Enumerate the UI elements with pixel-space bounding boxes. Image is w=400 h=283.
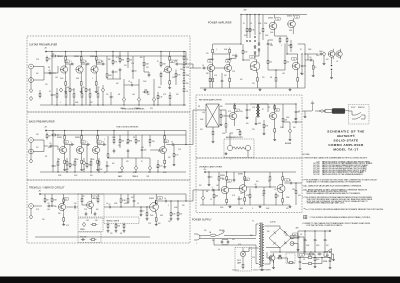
resistor R61 <box>44 197 49 204</box>
wire <box>158 200 164 202</box>
ground <box>246 116 249 119</box>
transistor vib 1 <box>221 184 229 196</box>
capacitor C24 <box>85 212 88 216</box>
wire <box>52 131 54 164</box>
wire output <box>175 144 186 146</box>
resistor R62 <box>63 197 65 204</box>
junction <box>65 51 66 52</box>
resistor R110 <box>218 175 224 182</box>
svg-text:220: 220 <box>262 77 265 79</box>
wire <box>175 78 177 85</box>
shield symbol <box>311 101 314 109</box>
wire ladder link <box>183 69 185 70</box>
junction <box>51 51 52 52</box>
wire <box>294 243 298 245</box>
wire <box>290 40 292 43</box>
voltage callout <box>227 180 232 183</box>
svg-text:100K: 100K <box>288 45 291 47</box>
voltage callout <box>64 198 69 201</box>
wire <box>113 131 115 138</box>
resistor R55 <box>57 160 59 167</box>
resistor R109 <box>244 175 246 182</box>
junction <box>64 130 65 131</box>
ground <box>299 267 302 270</box>
wire <box>275 192 277 194</box>
wire <box>255 103 257 105</box>
resistor R38 <box>64 134 66 141</box>
wire emitter <box>81 156 83 159</box>
svg-text:2N3054: 2N3054 <box>287 16 292 18</box>
wire <box>298 43 305 45</box>
svg-text:10K: 10K <box>116 83 119 85</box>
resistor R113 <box>282 175 284 182</box>
wire <box>254 55 256 60</box>
resistor R111 <box>263 189 265 196</box>
AC plug <box>194 234 202 240</box>
capacitor C22 <box>106 164 110 168</box>
wire V+ rail bass <box>46 130 186 132</box>
wire <box>269 256 271 264</box>
wire <box>287 258 289 263</box>
capacitor C53 <box>329 259 332 263</box>
resistor R83 <box>246 27 251 34</box>
wire <box>44 194 46 197</box>
junction <box>57 171 58 172</box>
capacitor C52 <box>324 238 327 242</box>
svg-text:470K: 470K <box>306 245 309 247</box>
svg-text:470: 470 <box>308 255 311 257</box>
svg-text:FOOT: FOOT <box>351 107 355 109</box>
junction <box>209 67 210 68</box>
wire osc base <box>82 204 87 206</box>
svg-text:2.2K: 2.2K <box>159 97 162 99</box>
junction <box>324 230 325 231</box>
terminal <box>329 251 330 252</box>
junction <box>304 230 305 231</box>
svg-text:.05: .05 <box>163 71 165 73</box>
wire to ground rail <box>56 99 58 105</box>
svg-text:100: 100 <box>286 62 289 64</box>
svg-text:47K: 47K <box>90 102 93 104</box>
resistor R3 <box>65 55 67 62</box>
resistor R97 <box>225 122 227 129</box>
ground <box>314 265 317 268</box>
wire jack chain <box>30 69 32 88</box>
ground <box>289 138 292 141</box>
ground <box>146 217 149 220</box>
junction <box>258 14 259 15</box>
wire <box>230 57 236 59</box>
wire <box>222 244 228 246</box>
diode D3 <box>258 42 260 46</box>
junction <box>98 171 99 172</box>
wire collector <box>81 141 83 145</box>
capacitor C12 <box>110 95 114 99</box>
ground <box>62 223 65 226</box>
wire prim bot <box>255 245 257 264</box>
wire collector feed <box>97 131 99 135</box>
bottom film border band <box>0 277 400 283</box>
svg-text:.05: .05 <box>156 167 158 169</box>
svg-text:8.2K: 8.2K <box>172 214 175 216</box>
svg-text:.1: .1 <box>281 45 282 47</box>
capacitor C46 <box>208 175 213 179</box>
resistor R89 <box>209 77 213 84</box>
svg-text:+9V: +9V <box>44 48 47 50</box>
wire ladder link <box>183 85 185 86</box>
svg-text:1500: 1500 <box>220 207 223 209</box>
svg-text:.02: .02 <box>108 204 110 206</box>
svg-text:12K: 12K <box>262 195 265 197</box>
wire out <box>298 121 302 123</box>
wire bias divider 2 <box>85 64 87 87</box>
svg-text:THE AMPLIFIER. READINGS MAY VA: THE AMPLIFIER. READINGS MAY VARY ±20%. <box>307 202 346 205</box>
resistor R46 <box>113 138 115 145</box>
wire emitter resistor to gnd <box>65 87 67 90</box>
resistor R96 <box>290 43 292 50</box>
wire <box>169 62 171 64</box>
transformer reverb <box>256 104 260 118</box>
wire to ground rail <box>89 99 91 105</box>
resistor R74 <box>51 197 57 204</box>
wire <box>185 194 187 201</box>
capacitor C34 <box>319 51 323 55</box>
junction <box>275 69 276 70</box>
voltage callout <box>158 197 163 200</box>
wire <box>274 122 276 127</box>
svg-text:2.2K: 2.2K <box>178 149 181 151</box>
wire <box>160 78 162 85</box>
svg-text:FOR THE PHYSICAL LOCATION OF P: FOR THE PHYSICAL LOCATION OF PARTS. <box>307 224 343 227</box>
wire <box>256 223 259 225</box>
wire <box>110 99 112 105</box>
dashed pilot lamp box <box>235 248 252 272</box>
svg-text:35: 35 <box>296 17 298 19</box>
svg-text:8.2: 8.2 <box>276 110 278 112</box>
svg-text:50-60 Hz: 50-60 Hz <box>270 222 276 224</box>
wire <box>329 263 331 266</box>
svg-text:1K: 1K <box>243 23 245 25</box>
svg-text:6.8K: 6.8K <box>270 45 273 47</box>
wire to primary <box>230 234 256 236</box>
wire <box>250 103 296 105</box>
wire <box>202 190 204 196</box>
terminal <box>45 51 46 52</box>
ground <box>140 213 143 216</box>
plug cord <box>345 109 349 112</box>
capacitor C18 <box>127 149 130 153</box>
phone plug shaft <box>325 110 332 113</box>
wire <box>66 206 73 208</box>
svg-text:6.8K: 6.8K <box>133 172 136 174</box>
wire <box>304 242 306 252</box>
svg-text:250: 250 <box>304 66 307 68</box>
svg-text:1. RESISTOR AND CAPACITOR NU: 1. RESISTOR AND CAPACITOR NUMBERS ARE IN… <box>303 157 369 160</box>
svg-text:2N3054: 2N3054 <box>268 18 273 20</box>
capacitor C26 <box>74 205 78 209</box>
resistor R35 <box>183 87 185 94</box>
svg-text:4.7K: 4.7K <box>116 57 119 59</box>
jack input 1 <box>29 64 36 69</box>
wire rail drop <box>240 15 242 45</box>
wire pot feed <box>123 79 125 97</box>
capacitor C1 <box>48 70 52 74</box>
capacitor C44 <box>254 184 258 188</box>
capacitor C30 <box>164 198 168 202</box>
resistor R116 <box>213 193 218 200</box>
wire <box>292 15 294 17</box>
wire tone node <box>106 56 108 72</box>
wire <box>140 207 142 209</box>
junction <box>185 63 186 64</box>
wire <box>63 201 65 204</box>
wire <box>213 53 230 55</box>
wire feed <box>213 43 241 45</box>
wire emitter <box>95 75 97 80</box>
voltage callout <box>81 60 86 63</box>
transistor pre-driver <box>250 59 260 73</box>
wire <box>169 100 171 105</box>
junction <box>286 53 287 54</box>
svg-text:470K: 470K <box>308 49 311 51</box>
svg-text:2.2K: 2.2K <box>131 63 134 65</box>
wire <box>51 205 56 207</box>
wire <box>124 84 130 86</box>
transistor Q2 <box>76 64 83 75</box>
svg-text:+9V: +9V <box>44 127 47 129</box>
svg-text:47K: 47K <box>232 55 235 57</box>
wire to plug <box>302 110 312 112</box>
junction <box>234 103 235 104</box>
svg-text:2.2K: 2.2K <box>36 59 39 61</box>
svg-text:39K: 39K <box>129 141 132 143</box>
potentiometer speed <box>82 222 85 226</box>
wire jog <box>192 64 194 68</box>
resistor R5 <box>80 55 82 62</box>
wire emitter <box>226 196 228 198</box>
ground <box>177 217 180 220</box>
wire input power amp <box>190 67 201 69</box>
wire into vibrato <box>193 189 196 191</box>
wire <box>283 121 290 123</box>
wire rail vibrato <box>205 171 296 173</box>
wire line hot <box>202 234 209 236</box>
svg-text:15K: 15K <box>124 65 127 67</box>
wire <box>218 172 220 175</box>
ground <box>64 90 67 93</box>
svg-text:+: + <box>316 240 317 242</box>
wire <box>269 172 271 175</box>
wire <box>236 129 240 131</box>
wire <box>127 131 129 138</box>
resistor R70 <box>155 199 157 206</box>
phone plug body <box>332 108 345 113</box>
svg-text:1500: 1500 <box>118 172 121 174</box>
wire <box>81 203 83 205</box>
junction <box>183 62 184 63</box>
resistor R12 <box>119 57 124 64</box>
svg-text:220: 220 <box>199 185 202 187</box>
wire <box>282 194 284 197</box>
resistor R28 <box>97 92 99 99</box>
svg-text:2.2K: 2.2K <box>246 195 249 197</box>
svg-text:560: 560 <box>112 163 115 165</box>
wire pot feed <box>149 158 151 166</box>
wire lower band bass <box>98 158 100 160</box>
wire emitter <box>256 72 258 76</box>
potentiometer treble <box>137 97 140 101</box>
wire <box>226 115 229 117</box>
wire to rail <box>66 167 68 172</box>
capacitor C7 <box>130 82 134 86</box>
svg-text:15K: 15K <box>240 111 243 113</box>
wire <box>275 35 287 37</box>
capacitor C6 <box>119 68 122 72</box>
svg-text:1500: 1500 <box>265 35 268 37</box>
svg-text:POWER SUPPLY: POWER SUPPLY <box>192 220 212 222</box>
resistor R37 <box>64 159 66 166</box>
svg-text:5.2: 5.2 <box>98 142 100 144</box>
resistor R29 <box>157 94 162 101</box>
wire <box>282 104 284 117</box>
wire <box>287 53 298 55</box>
wire <box>157 92 159 94</box>
wire <box>324 231 326 238</box>
resistor R68 <box>120 197 126 204</box>
junction <box>279 251 280 252</box>
wire pot gnd <box>149 170 151 172</box>
wire tremolo out connector <box>186 200 193 202</box>
wire <box>275 83 277 88</box>
wire <box>295 183 297 189</box>
capacitor C54 <box>299 260 302 264</box>
resistor R108 <box>244 196 246 203</box>
svg-text:.05: .05 <box>58 159 60 161</box>
svg-text:10: 10 <box>202 65 204 67</box>
wire <box>331 71 333 76</box>
resistor R16 <box>169 79 171 86</box>
wire lower band <box>56 88 58 92</box>
svg-text:.1: .1 <box>211 187 212 189</box>
voltage callout <box>226 60 231 63</box>
svg-text:+36V: +36V <box>243 10 247 12</box>
potentiometer stage 3 <box>101 88 104 92</box>
wire <box>91 210 93 214</box>
tremolo section box <box>27 180 190 243</box>
wire collector <box>97 141 99 145</box>
transistor Q7 <box>58 201 65 212</box>
svg-text:.05: .05 <box>49 143 51 145</box>
wire <box>305 59 309 61</box>
svg-text:.05: .05 <box>47 203 49 205</box>
svg-text:560: 560 <box>96 209 99 211</box>
wire <box>249 15 251 27</box>
capacitor C17 <box>113 149 116 153</box>
wire <box>55 206 57 207</box>
wire collector feed <box>81 131 83 135</box>
junction <box>183 51 184 52</box>
ground <box>273 138 276 141</box>
svg-text:VOL: VOL <box>150 108 153 110</box>
svg-text:+: + <box>306 240 307 242</box>
wire collector <box>80 62 82 64</box>
svg-text:PILOT: PILOT <box>237 260 241 262</box>
ground <box>220 123 223 126</box>
wire to out <box>264 186 276 188</box>
resistor R105 <box>263 123 268 130</box>
svg-text:2200: 2200 <box>124 203 127 205</box>
wire <box>218 182 220 190</box>
resistor R123 <box>288 262 295 264</box>
wire lower band <box>65 88 67 92</box>
wire <box>69 145 71 162</box>
svg-text:5.6K: 5.6K <box>244 52 247 54</box>
svg-text:470K: 470K <box>172 77 175 79</box>
wire output <box>179 63 186 65</box>
svg-text:2N3391: 2N3391 <box>238 174 243 176</box>
top film border band <box>0 0 400 8</box>
svg-text:22K: 22K <box>284 120 287 122</box>
svg-text:.1: .1 <box>92 78 93 80</box>
capacitor C37 <box>309 57 313 61</box>
wire tank out <box>247 151 249 158</box>
junction <box>96 51 97 52</box>
reverb amplifier section box <box>196 95 302 158</box>
wire to gnd rail <box>69 93 71 105</box>
wire <box>262 15 264 27</box>
svg-text:2N3391: 2N3391 <box>75 137 80 139</box>
capacitor C38 <box>301 64 306 68</box>
wire <box>243 59 250 61</box>
wire <box>256 83 258 88</box>
svg-text:1500: 1500 <box>316 259 319 261</box>
svg-text:220K: 220K <box>222 116 226 118</box>
transformer T1 <box>259 222 264 267</box>
junction <box>185 200 186 201</box>
transistor oscillator <box>87 200 94 211</box>
svg-text:1.2: 1.2 <box>65 199 67 201</box>
wire <box>222 238 228 240</box>
svg-text:560: 560 <box>36 73 39 75</box>
svg-text:RESISTORS MARKED WITH AN ASTER: RESISTORS MARKED WITH AN ASTERISK ARE 5%… <box>307 192 361 195</box>
voltage callout <box>292 58 297 61</box>
svg-text:6.8K: 6.8K <box>258 123 261 125</box>
potentiometer bass <box>122 97 125 101</box>
wire collector <box>65 62 67 64</box>
capacitor C15 <box>86 142 90 146</box>
wire interstage 2 <box>81 63 85 65</box>
svg-text:1K: 1K <box>157 61 159 63</box>
wire from jack 2 <box>35 151 44 153</box>
wire interstage 2 <box>82 144 86 146</box>
wire emitter <box>64 156 66 159</box>
ground <box>115 229 118 232</box>
svg-text:701-799: 701-799 <box>313 174 319 176</box>
svg-text:.02: .02 <box>303 259 305 261</box>
wire <box>292 30 294 34</box>
wire <box>303 237 305 254</box>
junction <box>169 104 170 105</box>
wire gnd <box>244 203 246 205</box>
wire plus bus <box>297 231 299 252</box>
junction <box>218 189 219 190</box>
svg-text:T1: T1 <box>252 221 254 223</box>
wire <box>282 182 284 183</box>
potentiometer bass level <box>29 159 32 163</box>
resistor R63 <box>63 216 65 223</box>
svg-text:1500: 1500 <box>99 169 102 171</box>
svg-text:.05: .05 <box>309 57 311 59</box>
